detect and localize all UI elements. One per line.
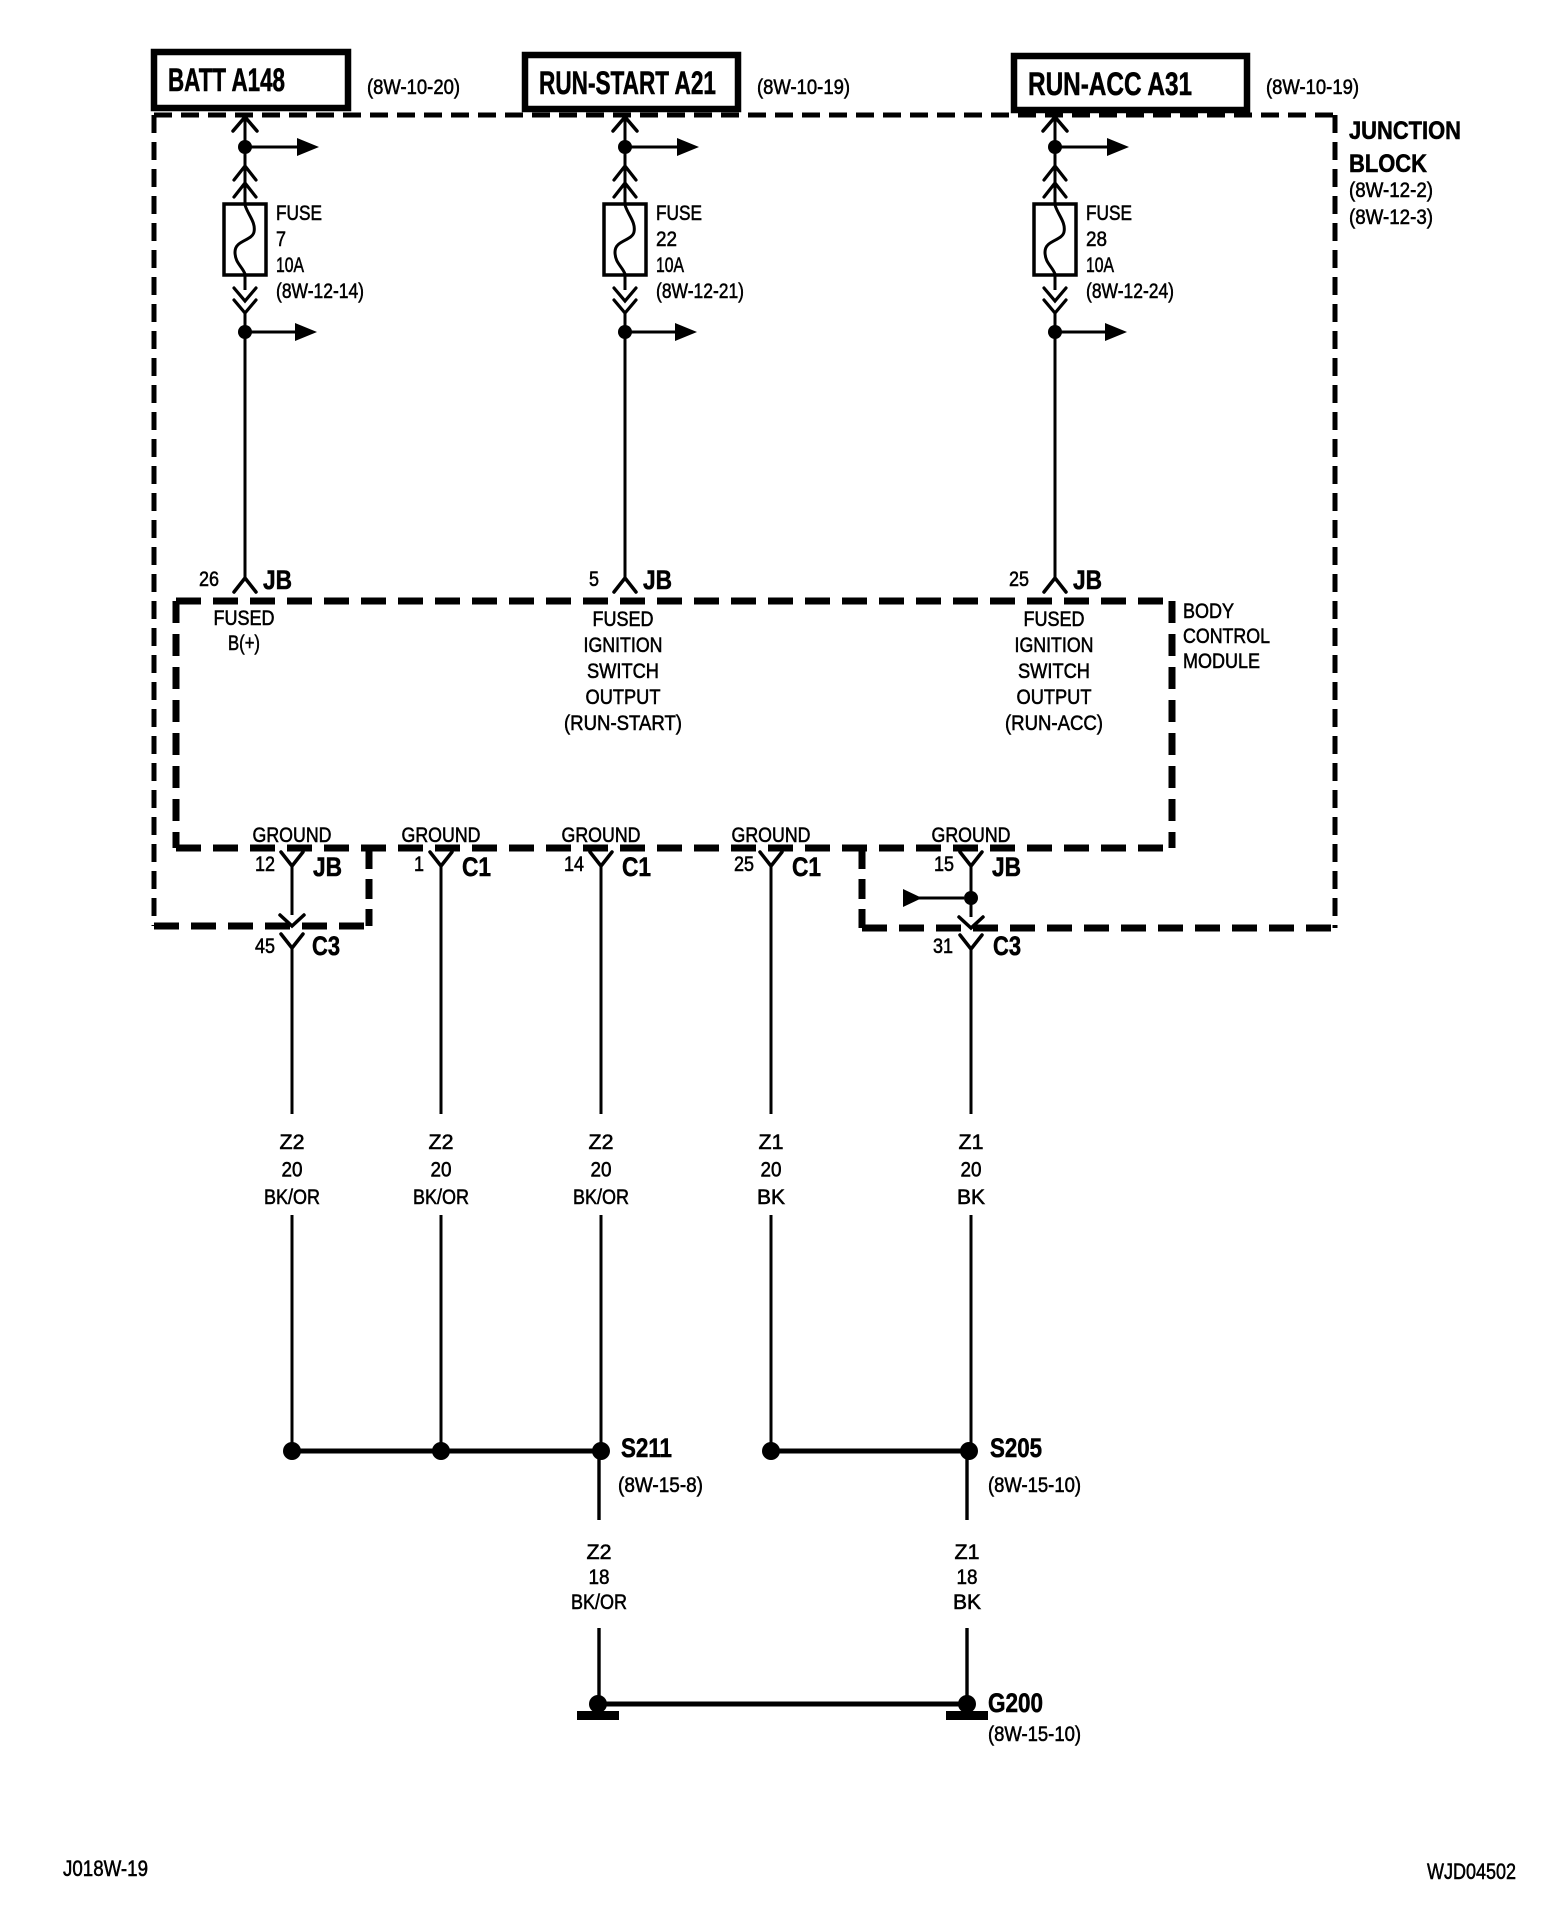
svg-text:Z2: Z2 xyxy=(429,1131,454,1154)
svg-text:28: 28 xyxy=(1086,228,1107,251)
svg-text:20: 20 xyxy=(591,1159,612,1182)
svg-text:FUSE: FUSE xyxy=(276,202,322,225)
svg-text:1: 1 xyxy=(414,853,424,876)
svg-text:BK/OR: BK/OR xyxy=(573,1186,629,1209)
svg-text:25: 25 xyxy=(1009,568,1029,591)
svg-text:IGNITION: IGNITION xyxy=(584,634,663,657)
svg-text:Z1: Z1 xyxy=(959,1131,984,1154)
svg-text:Z1: Z1 xyxy=(955,1541,980,1564)
svg-text:WJD04502: WJD04502 xyxy=(1427,1859,1516,1884)
svg-text:BK/OR: BK/OR xyxy=(264,1186,320,1209)
svg-text:25: 25 xyxy=(734,853,754,876)
svg-text:OUTPUT: OUTPUT xyxy=(1017,686,1092,709)
svg-text:J018W-19: J018W-19 xyxy=(63,1856,148,1881)
svg-text:JB: JB xyxy=(992,852,1021,882)
svg-text:20: 20 xyxy=(961,1159,982,1182)
svg-text:GROUND: GROUND xyxy=(253,824,332,847)
svg-text:15: 15 xyxy=(934,853,954,876)
svg-text:S211: S211 xyxy=(621,1433,672,1463)
svg-text:(8W-10-19): (8W-10-19) xyxy=(1266,76,1359,99)
svg-text:(8W-10-20): (8W-10-20) xyxy=(367,76,460,99)
svg-text:BODY: BODY xyxy=(1183,600,1234,623)
svg-text:10A: 10A xyxy=(276,254,304,277)
svg-text:BK: BK xyxy=(757,1186,785,1209)
svg-text:(8W-15-10): (8W-15-10) xyxy=(988,1474,1081,1497)
svg-text:FUSED: FUSED xyxy=(214,607,275,630)
svg-text:C1: C1 xyxy=(792,852,821,882)
svg-text:10A: 10A xyxy=(656,254,684,277)
svg-text:20: 20 xyxy=(761,1159,782,1182)
svg-text:FUSE: FUSE xyxy=(656,202,702,225)
svg-text:Z2: Z2 xyxy=(589,1131,614,1154)
svg-text:C1: C1 xyxy=(622,852,651,882)
svg-text:S205: S205 xyxy=(990,1433,1042,1463)
svg-text:BK: BK xyxy=(957,1186,985,1209)
svg-text:MODULE: MODULE xyxy=(1183,650,1260,673)
svg-text:RUN-START A21: RUN-START A21 xyxy=(539,65,716,101)
svg-text:GROUND: GROUND xyxy=(562,824,641,847)
svg-text:(8W-15-10): (8W-15-10) xyxy=(988,1723,1081,1746)
svg-text:(8W-12-24): (8W-12-24) xyxy=(1086,280,1174,303)
svg-text:IGNITION: IGNITION xyxy=(1015,634,1094,657)
svg-text:Z2: Z2 xyxy=(587,1541,612,1564)
svg-text:SWITCH: SWITCH xyxy=(1018,660,1090,683)
svg-text:GROUND: GROUND xyxy=(732,824,811,847)
svg-text:SWITCH: SWITCH xyxy=(587,660,659,683)
svg-text:BK/OR: BK/OR xyxy=(571,1591,627,1614)
svg-text:(8W-12-3): (8W-12-3) xyxy=(1349,206,1433,229)
svg-text:BLOCK: BLOCK xyxy=(1349,150,1427,178)
svg-text:BATT A148: BATT A148 xyxy=(168,62,285,98)
svg-text:5: 5 xyxy=(589,568,599,591)
svg-text:(RUN-ACC): (RUN-ACC) xyxy=(1005,712,1103,735)
svg-text:BK/OR: BK/OR xyxy=(413,1186,469,1209)
svg-text:(RUN-START): (RUN-START) xyxy=(564,712,682,735)
svg-text:20: 20 xyxy=(282,1159,303,1182)
svg-text:26: 26 xyxy=(199,568,219,591)
svg-text:FUSED: FUSED xyxy=(1024,608,1085,631)
svg-text:10A: 10A xyxy=(1086,254,1114,277)
svg-text:BK: BK xyxy=(953,1591,981,1614)
svg-text:(8W-12-14): (8W-12-14) xyxy=(276,280,364,303)
svg-text:Z1: Z1 xyxy=(759,1131,784,1154)
svg-text:(8W-12-2): (8W-12-2) xyxy=(1349,179,1433,202)
svg-text:G200: G200 xyxy=(988,1688,1043,1718)
svg-text:(8W-12-21): (8W-12-21) xyxy=(656,280,744,303)
svg-text:C1: C1 xyxy=(462,852,491,882)
svg-text:C3: C3 xyxy=(312,931,340,961)
svg-text:JB: JB xyxy=(313,852,342,882)
svg-text:JB: JB xyxy=(1073,565,1102,595)
svg-text:45: 45 xyxy=(255,935,275,958)
svg-text:(8W-15-8): (8W-15-8) xyxy=(618,1474,703,1497)
svg-text:JUNCTION: JUNCTION xyxy=(1349,117,1461,145)
svg-text:14: 14 xyxy=(564,853,584,876)
svg-text:OUTPUT: OUTPUT xyxy=(586,686,661,709)
svg-text:31: 31 xyxy=(933,935,953,958)
svg-text:22: 22 xyxy=(656,228,677,251)
svg-text:GROUND: GROUND xyxy=(932,824,1011,847)
svg-text:Z2: Z2 xyxy=(280,1131,305,1154)
svg-text:18: 18 xyxy=(589,1566,610,1589)
svg-text:JB: JB xyxy=(643,565,672,595)
svg-text:JB: JB xyxy=(263,565,292,595)
svg-text:18: 18 xyxy=(957,1566,978,1589)
svg-text:(8W-10-19): (8W-10-19) xyxy=(757,76,850,99)
svg-text:GROUND: GROUND xyxy=(402,824,481,847)
svg-text:CONTROL: CONTROL xyxy=(1183,625,1270,648)
svg-text:FUSED: FUSED xyxy=(593,608,654,631)
svg-text:12: 12 xyxy=(255,853,275,876)
svg-text:RUN-ACC A31: RUN-ACC A31 xyxy=(1028,66,1192,102)
svg-text:C3: C3 xyxy=(993,931,1021,961)
svg-text:FUSE: FUSE xyxy=(1086,202,1132,225)
svg-text:B(+): B(+) xyxy=(228,632,260,655)
svg-text:20: 20 xyxy=(431,1159,452,1182)
svg-text:7: 7 xyxy=(276,228,286,251)
